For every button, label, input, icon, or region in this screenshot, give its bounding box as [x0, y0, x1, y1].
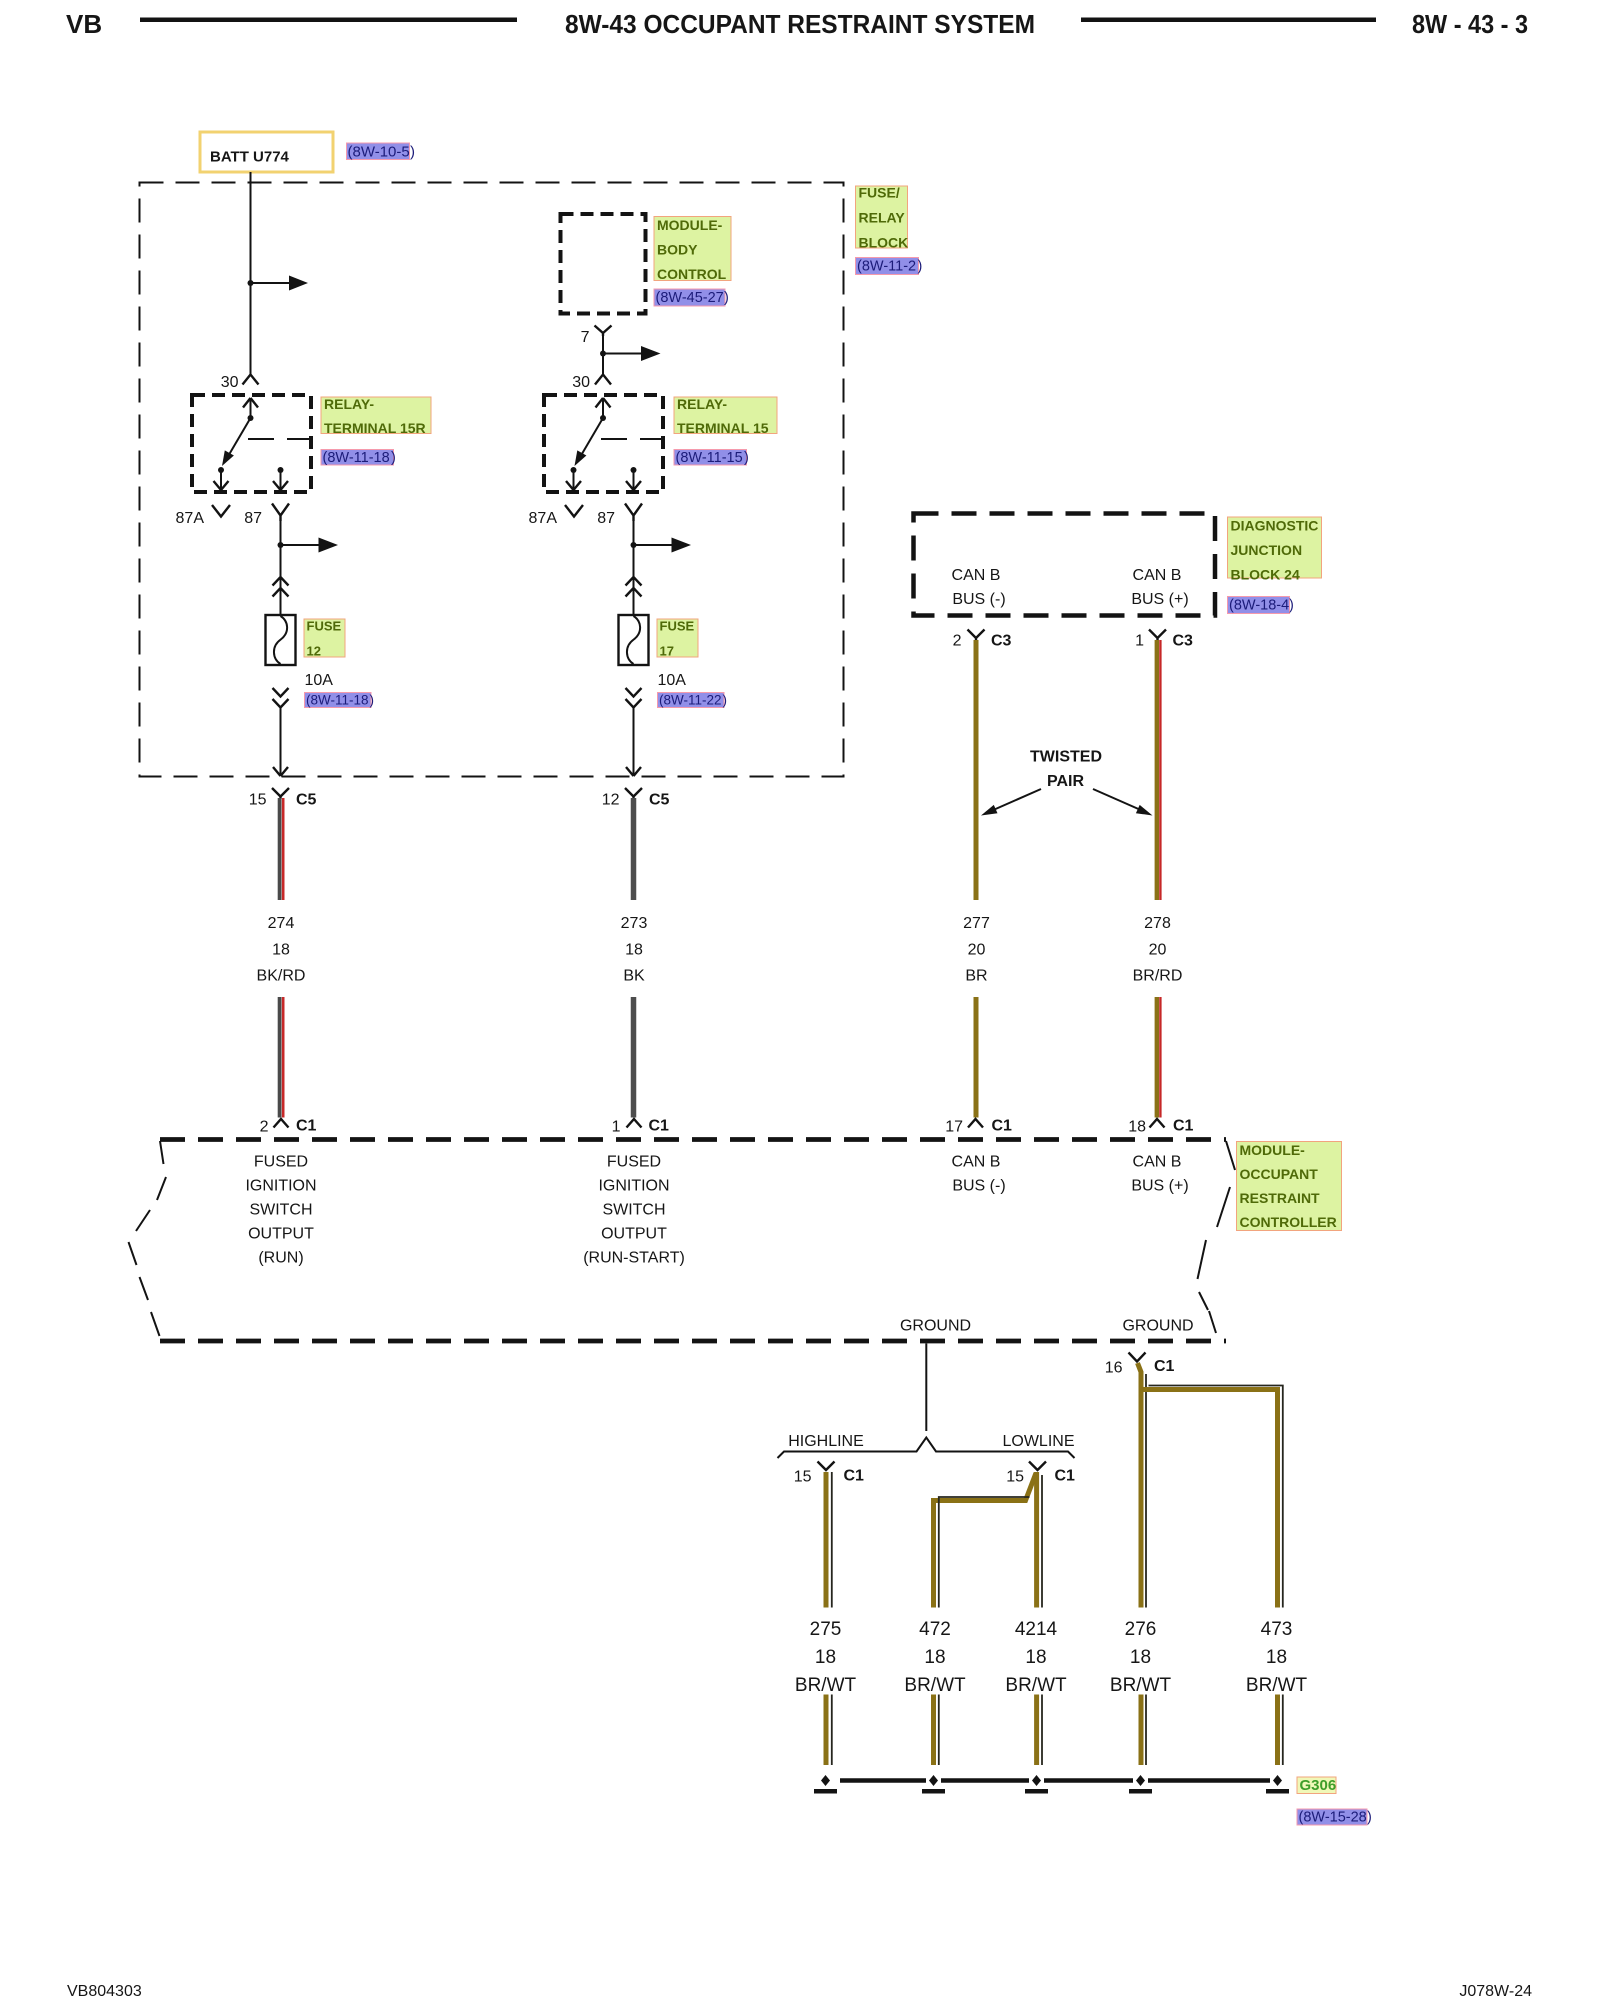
relay R2 contact 87	[631, 467, 637, 473]
svg-text:C1: C1	[296, 1118, 317, 1135]
svg-text:(8W-11-18: (8W-11-18	[306, 693, 369, 708]
wire 277 BR lower segment	[974, 997, 979, 1118]
wire fuse 17 output to block edge	[633, 708, 635, 776]
battery feed box BATT U774	[200, 132, 333, 172]
svg-text:(8W-45-27: (8W-45-27	[656, 290, 724, 306]
svg-text:(8W-15-28: (8W-15-28	[1299, 1810, 1367, 1826]
svg-text:SWITCH: SWITCH	[249, 1202, 312, 1219]
svg-text:273: 273	[621, 915, 648, 932]
reference label (8W-11-2)	[856, 258, 923, 275]
reference label (8W-45-27)	[654, 289, 729, 306]
svg-text:VB804303: VB804303	[67, 1983, 142, 2000]
svg-text:274: 274	[268, 915, 295, 932]
in-line connector chevrons below fuse 12	[273, 688, 289, 708]
header rule left	[140, 18, 517, 23]
leader arrow to wire 277	[991, 789, 1041, 811]
svg-text:BR/WT: BR/WT	[1110, 1675, 1172, 1696]
relay R1 mechanical linkage dashed	[248, 438, 311, 440]
wire 273 BK lower segment	[631, 997, 637, 1118]
body control module dashed box	[561, 214, 646, 314]
svg-text:15: 15	[249, 792, 267, 809]
wire branch arrow to other circuits	[251, 282, 290, 284]
svg-text:472: 472	[919, 1619, 951, 1640]
svg-text:HIGHLINE: HIGHLINE	[788, 1433, 864, 1450]
relay R2 terminal 30 arrow into coil common	[596, 398, 611, 408]
occupant restraint controller module box right jagged edge	[1198, 1141, 1236, 1333]
wire from BCM pin 7 to relay 2 terminal 30	[602, 334, 604, 374]
occupant restraint controller module box top edge	[160, 1137, 1226, 1142]
svg-text:): )	[918, 259, 923, 275]
svg-text:VB: VB	[66, 9, 102, 39]
svg-text:C1: C1	[1154, 1358, 1175, 1375]
svg-text:SWITCH: SWITCH	[602, 1202, 665, 1219]
svg-text:TERMINAL 15: TERMINAL 15	[677, 420, 769, 436]
in-line connector chevrons below fuse 17	[626, 688, 642, 708]
svg-text:30: 30	[572, 374, 590, 391]
leader arrow to wire 278	[1093, 789, 1143, 811]
svg-text:GROUND: GROUND	[1122, 1318, 1193, 1335]
svg-text:(RUN): (RUN)	[258, 1250, 303, 1267]
svg-text:BR/WT: BR/WT	[904, 1675, 966, 1696]
svg-text:18: 18	[815, 1647, 836, 1668]
wire 275 lower segment	[824, 1695, 829, 1766]
svg-text:(8W-18-4: (8W-18-4	[1229, 598, 1289, 614]
svg-text:BK/RD: BK/RD	[257, 968, 306, 985]
svg-text:16: 16	[1105, 1360, 1123, 1377]
ground bus bar G306	[840, 1778, 1270, 1783]
svg-text:18: 18	[1128, 1119, 1146, 1136]
svg-text:(RUN-START): (RUN-START)	[583, 1250, 685, 1267]
label FUSE 12	[304, 619, 345, 659]
svg-text:8W - 43 - 3: 8W - 43 - 3	[1412, 9, 1528, 39]
wire fuse 12 output to block edge	[280, 708, 282, 776]
wire 278 BR/RD lower segment	[1155, 997, 1159, 1118]
relay R1 contact 87	[278, 467, 284, 473]
svg-text:RELAY-: RELAY-	[677, 396, 727, 412]
svg-text:BLOCK 24: BLOCK 24	[1231, 567, 1300, 583]
svg-text:C1: C1	[1173, 1118, 1194, 1135]
in-line connector chevrons above fuse 17	[626, 577, 642, 597]
svg-text:15: 15	[1006, 1469, 1024, 1486]
reference label (8W-11-15)	[674, 450, 749, 467]
svg-text:FUSED: FUSED	[254, 1154, 308, 1171]
svg-text:87: 87	[597, 510, 615, 527]
relay R1 - terminal 15R dashed outline	[192, 395, 311, 492]
svg-text:BK: BK	[623, 968, 645, 985]
svg-text:C1: C1	[992, 1118, 1013, 1135]
wire 472 BR/WT branch from lowline connector	[934, 1473, 1037, 1608]
svg-text:278: 278	[1144, 915, 1171, 932]
svg-text:10A: 10A	[305, 672, 334, 689]
wire 273 BK upper segment	[631, 798, 637, 900]
svg-text:12: 12	[602, 792, 620, 809]
svg-text:BATT U774: BATT U774	[210, 149, 290, 166]
label FUSE 17	[657, 619, 698, 659]
svg-text:4214: 4214	[1015, 1619, 1058, 1640]
diagnostic junction block dashed box	[914, 514, 1216, 616]
fuse F12 symbol	[266, 615, 296, 665]
relay R1 contact 87A	[218, 467, 224, 473]
svg-text:C1: C1	[649, 1118, 670, 1135]
header rule right	[1081, 18, 1376, 23]
svg-text:BUS (-): BUS (-)	[952, 1178, 1005, 1195]
branch arrow to other circuits	[634, 544, 672, 546]
svg-text:18: 18	[272, 942, 290, 959]
svg-text:CONTROL: CONTROL	[657, 266, 727, 282]
svg-text:C3: C3	[991, 633, 1012, 650]
svg-text:18: 18	[1130, 1647, 1151, 1668]
connector pin 18 C1	[1150, 1119, 1165, 1128]
svg-text:OUTPUT: OUTPUT	[248, 1226, 314, 1243]
svg-text:RELAY-: RELAY-	[324, 396, 374, 412]
reference label (8W-11-22) below fuse 17	[658, 693, 728, 708]
wire from relay 2 terminal 87 to fuse 17	[633, 521, 635, 615]
wire 275 BR/WT upper segment	[824, 1472, 829, 1608]
wire 274 BK/RD lower segment	[278, 997, 282, 1118]
svg-text:BR/WT: BR/WT	[795, 1675, 857, 1696]
svg-text:OCCUPANT: OCCUPANT	[1240, 1166, 1319, 1182]
svg-text:CAN B: CAN B	[952, 1154, 1001, 1171]
wire from battery to relay 1 terminal 30	[250, 172, 252, 374]
label DIAGNOSTIC JUNCTION BLOCK 24	[1228, 517, 1322, 583]
svg-text:(8W-10-5: (8W-10-5	[348, 144, 410, 161]
svg-text:C1: C1	[844, 1468, 865, 1485]
relay R2 mechanical linkage dashed	[601, 438, 663, 440]
occupant restraint controller module box left jagged edge	[129, 1141, 167, 1336]
svg-text:): )	[1289, 598, 1294, 614]
svg-text:BLOCK: BLOCK	[859, 235, 909, 251]
wire 4214 BR/WT upper segment	[1034, 1472, 1039, 1608]
svg-text:C1: C1	[1055, 1468, 1076, 1485]
svg-text:30: 30	[221, 374, 239, 391]
svg-text:J078W-24: J078W-24	[1459, 1983, 1532, 2000]
svg-text:473: 473	[1261, 1619, 1293, 1640]
svg-text:(8W-11-2: (8W-11-2	[857, 259, 916, 275]
reference label (8W-18-4)	[1228, 597, 1294, 614]
svg-text:): )	[391, 450, 396, 466]
in-line connector chevrons above fuse 12	[273, 577, 289, 597]
label FUSE/RELAY BLOCK	[856, 185, 909, 251]
svg-text:BODY: BODY	[657, 242, 698, 258]
svg-text:2: 2	[953, 633, 962, 650]
svg-text:17: 17	[945, 1119, 963, 1136]
reference label (8W-11-18)	[321, 450, 396, 467]
wire 472 lower segment	[931, 1695, 936, 1766]
svg-text:): )	[723, 693, 728, 708]
svg-text:BUS (+): BUS (+)	[1131, 1178, 1188, 1195]
label RELAY-TERMINAL 15	[674, 396, 777, 436]
svg-text:RESTRAINT: RESTRAINT	[1240, 1190, 1321, 1206]
ground splice diamond wire 276	[1136, 1775, 1145, 1786]
svg-text:TWISTED: TWISTED	[1030, 749, 1102, 766]
connector pin 17 C1	[968, 1119, 983, 1128]
label G306	[1297, 1777, 1336, 1794]
svg-text:(8W-11-15: (8W-11-15	[676, 450, 743, 466]
svg-text:17: 17	[660, 644, 674, 659]
label MODULE-BODY CONTROL	[654, 217, 731, 283]
svg-text:IGNITION: IGNITION	[598, 1178, 669, 1195]
svg-text:): )	[370, 693, 375, 708]
reference label (8W-11-18) below fuse 12	[305, 693, 375, 708]
svg-text:C5: C5	[649, 792, 670, 809]
junction node on BCM feed	[600, 351, 606, 357]
relay R2 movable contact armature	[581, 418, 603, 456]
svg-text:MODULE-: MODULE-	[1240, 1142, 1306, 1158]
relay R2 contact 87A	[571, 467, 577, 473]
svg-text:BUS (+): BUS (+)	[1131, 591, 1188, 608]
wire 276 BR/WT upper segment from 16 C1	[1138, 1363, 1142, 1608]
occupant restraint controller module box bottom edge	[160, 1339, 1226, 1344]
svg-text:20: 20	[968, 942, 986, 959]
male connector pin 30 of relay 2	[595, 375, 611, 385]
svg-text:FUSE: FUSE	[307, 619, 342, 634]
svg-text:18: 18	[1266, 1647, 1287, 1668]
svg-text:BR/WT: BR/WT	[1005, 1675, 1067, 1696]
highline/lowline brace	[778, 1438, 1075, 1459]
svg-text:277: 277	[963, 915, 990, 932]
junction node on 87 feed	[278, 542, 284, 548]
svg-text:12: 12	[307, 644, 321, 659]
svg-text:18: 18	[625, 942, 643, 959]
fuse/relay block dashed box	[140, 183, 844, 777]
svg-text:PAIR: PAIR	[1047, 773, 1084, 790]
svg-text:): )	[744, 450, 749, 466]
svg-text:MODULE-: MODULE-	[657, 217, 723, 233]
wire 274 BK/RD upper segment	[278, 798, 282, 900]
svg-text:(8W-11-22: (8W-11-22	[659, 693, 722, 708]
svg-text:276: 276	[1125, 1619, 1157, 1640]
svg-text:): )	[410, 144, 415, 161]
svg-text:RELAY: RELAY	[859, 210, 906, 226]
ground splice diamond wire 473	[1273, 1775, 1282, 1786]
svg-text:IGNITION: IGNITION	[245, 1178, 316, 1195]
svg-text:CONTROLLER: CONTROLLER	[1240, 1214, 1337, 1230]
svg-text:(8W-11-18: (8W-11-18	[323, 450, 390, 466]
junction node on battery feed	[248, 280, 254, 286]
ground splice diamond wire 4214	[1032, 1775, 1041, 1786]
svg-text:15: 15	[794, 1469, 812, 1486]
ground splice diamond wire 275	[821, 1775, 830, 1786]
svg-text:87: 87	[244, 510, 262, 527]
svg-text:20: 20	[1149, 942, 1167, 959]
svg-text:FUSE: FUSE	[660, 619, 695, 634]
svg-text:BUS (-): BUS (-)	[952, 591, 1005, 608]
svg-text:275: 275	[810, 1619, 842, 1640]
svg-text:): )	[1367, 1810, 1372, 1826]
junction node on 87 feed branch 2	[631, 542, 637, 548]
svg-text:DIAGNOSTIC: DIAGNOSTIC	[1231, 518, 1319, 534]
svg-text:OUTPUT: OUTPUT	[601, 1226, 667, 1243]
female connector pin 7 of body control module	[595, 326, 612, 337]
wire 473 BR/WT branch run to the right	[1141, 1390, 1278, 1608]
branch arrow to other circuits	[281, 544, 319, 546]
branch arrow to other circuits	[603, 353, 641, 355]
svg-text:): )	[724, 290, 729, 306]
wire from GROUND left to highline/lowline split	[925, 1344, 927, 1432]
male connector pin 30 of relay 1	[243, 375, 259, 385]
wire from relay 1 terminal 87 to fuse 12	[280, 521, 282, 615]
connector pin 2 C1	[274, 1119, 289, 1128]
svg-text:1: 1	[612, 1119, 621, 1136]
svg-text:CAN B: CAN B	[952, 567, 1001, 584]
svg-text:18: 18	[924, 1647, 945, 1668]
svg-text:G306: G306	[1300, 1777, 1337, 1794]
wire 277 BR upper segment	[974, 640, 979, 900]
wire 4214 lower segment	[1034, 1695, 1039, 1766]
svg-text:GROUND: GROUND	[900, 1318, 971, 1335]
svg-text:C3: C3	[1173, 633, 1194, 650]
wire 278 BR/RD upper segment	[1155, 640, 1159, 900]
relay R1 terminal 30 arrow into coil common	[243, 398, 258, 408]
wire 276 lower segment	[1139, 1695, 1144, 1766]
svg-text:C5: C5	[296, 792, 317, 809]
svg-text:BR/RD: BR/RD	[1133, 968, 1183, 985]
svg-text:87A: 87A	[176, 510, 205, 527]
label MODULE-OCCUPANT RESTRAINT CONTROLLER	[1237, 1142, 1342, 1231]
svg-text:87A: 87A	[529, 510, 558, 527]
wire 473 lower segment	[1275, 1695, 1280, 1766]
ground splice diamond wire 472	[929, 1775, 938, 1786]
svg-text:JUNCTION: JUNCTION	[1231, 542, 1303, 558]
svg-text:BR/WT: BR/WT	[1246, 1675, 1308, 1696]
connector pin 1 C1	[627, 1119, 642, 1128]
svg-text:10A: 10A	[658, 672, 687, 689]
svg-text:TERMINAL 15R: TERMINAL 15R	[324, 420, 426, 436]
svg-text:FUSE/: FUSE/	[859, 185, 900, 201]
fuse F17 symbol	[619, 615, 649, 665]
svg-text:CAN B: CAN B	[1133, 567, 1182, 584]
relay R2 - terminal 15 dashed outline	[544, 395, 663, 492]
svg-text:18: 18	[1025, 1647, 1046, 1668]
svg-text:FUSED: FUSED	[607, 1154, 661, 1171]
svg-text:CAN B: CAN B	[1133, 1154, 1182, 1171]
svg-text:8W-43 OCCUPANT RESTRAINT SYSTE: 8W-43 OCCUPANT RESTRAINT SYSTEM	[565, 9, 1035, 39]
svg-text:BR: BR	[965, 968, 987, 985]
svg-text:LOWLINE: LOWLINE	[1002, 1433, 1074, 1450]
label RELAY-TERMINAL 15R	[321, 396, 431, 436]
svg-text:2: 2	[260, 1119, 269, 1136]
relay R1 movable contact armature	[229, 418, 251, 456]
svg-text:7: 7	[581, 329, 590, 346]
reference label (8W-10-5)	[347, 143, 416, 161]
reference label (8W-15-28)	[1297, 1809, 1372, 1826]
svg-text:1: 1	[1135, 633, 1144, 650]
